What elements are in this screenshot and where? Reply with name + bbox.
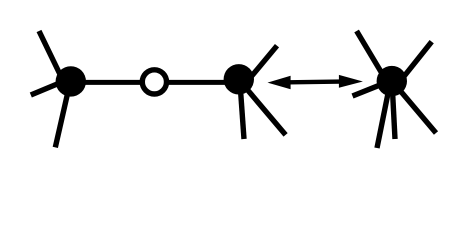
wire: spoke B up-right [248, 46, 277, 80]
wire: edge A to B through subdivision vertex [71, 80, 239, 85]
node B [224, 64, 254, 94]
wire: spoke C down [392, 81, 395, 139]
wire: spoke C down-right [392, 81, 436, 133]
node C (merged vertex) [377, 66, 407, 96]
wire: spoke B down-right [240, 81, 286, 135]
wire: spoke C up-right [401, 42, 432, 80]
double-headed arrow [268, 75, 363, 89]
node O (open subdivision vertex) [142, 70, 166, 94]
wire: spoke B down [240, 80, 244, 139]
wire: spoke A left [31, 80, 68, 96]
wire: spoke C up-left [357, 31, 387, 81]
wire: spoke A up-left [39, 31, 63, 81]
wire: spoke C left [353, 82, 389, 96]
wire: spoke C down-left [377, 81, 391, 148]
wire: spoke A down-left [55, 85, 69, 147]
node A [56, 66, 86, 96]
